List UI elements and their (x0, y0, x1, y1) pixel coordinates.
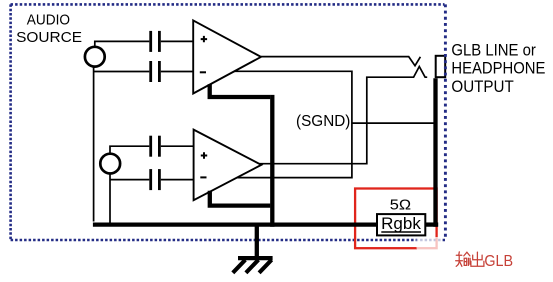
svg-text:HEADPHONE: HEADPHONE (451, 60, 545, 78)
svg-text:GLB LINE or: GLB LINE or (451, 42, 536, 60)
svg-text:(SGND): (SGND) (296, 113, 350, 130)
svg-text:OUTPUT: OUTPUT (451, 78, 513, 96)
svg-text:SOURCE: SOURCE (16, 29, 82, 46)
svg-text:AUDIO: AUDIO (27, 11, 70, 28)
svg-text:5Ω: 5Ω (390, 197, 411, 214)
svg-text:GLB: GLB (484, 253, 513, 270)
svg-text:Rgbk: Rgbk (381, 215, 421, 233)
